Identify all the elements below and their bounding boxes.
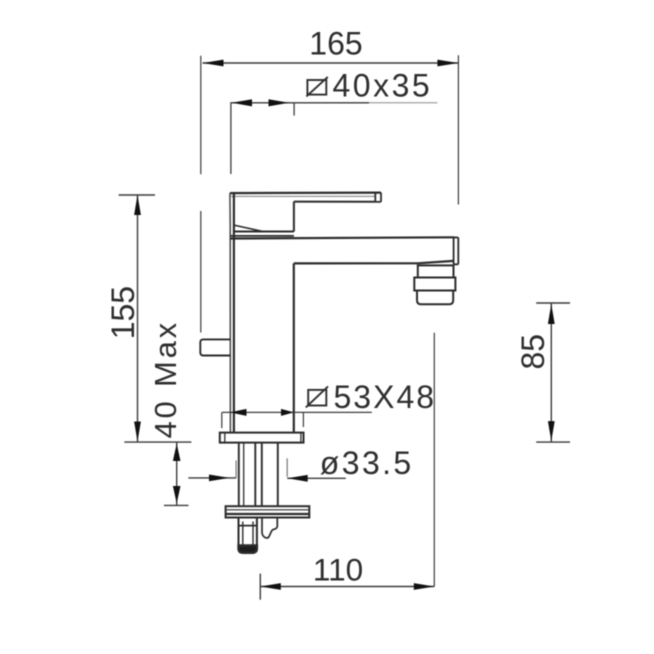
dim 85 bottom tick [536,441,570,443]
dim 40x35 leader faint tail [369,102,438,104]
arrow 40x35 right [269,99,290,106]
shank supply rod 1 [254,443,256,507]
shank supply rod 2 [261,443,263,507]
aerator band 1 [418,265,454,277]
dim 85 top tick [536,302,570,304]
dim 53x48 right bracket stub [302,412,304,427]
lever tip end cap [375,193,381,202]
dim 40x35 right stub [293,103,295,116]
arrow 165 right [437,60,458,67]
mounting flange inner lines [226,509,310,511]
body left outer edge [229,193,232,433]
label diameter symbol 53X48 [306,386,328,407]
dim 165 left extension line [200,56,202,333]
dim 165 right extension line [457,55,459,204]
spout bottom with chamfer [294,261,454,264]
svg-text:40 Max: 40 Max [148,320,183,438]
arrow 40x35 left [232,99,253,106]
arrow 33.5 left pointing right [209,475,230,482]
handle base bottom [234,231,294,233]
aerator band 2 [414,278,455,291]
dim 53x48 left bracket stub [221,412,223,428]
lever underside [294,201,375,203]
svg-text:53X48: 53X48 [334,379,437,415]
body left inner line [233,193,235,433]
shank outer wall right [277,443,279,507]
svg-text:85: 85 [515,334,551,370]
threaded stud top line [239,525,257,527]
hose break curl [262,518,277,538]
arrow 40 down [173,486,181,504]
dim 110 left tick [259,574,261,600]
arrow 155 down [134,422,141,442]
threaded stud inner lines [243,522,253,547]
arrow 155 up [134,195,141,215]
threaded stud bottom cap [239,546,257,553]
shared tick 155 bottom / 40 top [124,441,191,443]
arrow 33.5 right pointing left [287,475,308,482]
arrow 85 up [548,304,555,324]
dim 155 top tick [119,194,155,196]
threaded stud walls [239,518,257,549]
base plate inner ticks [225,433,301,443]
cartridge collar line [230,235,294,237]
dim 33.5 right line [287,477,346,479]
dim 40 line [176,442,178,505]
lever handle highlight line [231,195,375,197]
arrow 165 left [203,60,224,67]
dim 85 line [550,303,552,442]
dim 33.5 right stub [286,458,288,477]
dim 53x48 leader line [222,411,372,413]
dim 155 line [137,195,139,442]
dim 33.5 left stub [235,460,237,478]
body right edge [293,263,295,432]
handle base right edge [293,202,295,232]
dim 40x35 leader with corner [231,103,369,174]
dim 33.5 left line [188,477,236,479]
escutcheon base plate [220,433,304,443]
shank outer wall left [238,443,240,507]
arrow 40 up [173,444,181,462]
label diameter symbol 40x35 [306,77,327,97]
dim 110 right extension line [433,333,435,587]
svg-text:155: 155 [105,286,141,339]
dim 110 line [260,586,434,588]
arrow 85 down [548,421,555,441]
handle wedge diagonal [233,225,262,231]
arrow 53x48 right [281,409,294,416]
svg-text:110: 110 [313,551,363,587]
arrow 110 left [260,583,281,590]
body and spout top line [230,237,453,238]
arrow 53x48 left [230,409,247,416]
aerator band 3 [417,291,453,305]
lever handle top [230,192,381,195]
svg-text:40x35: 40x35 [333,68,433,104]
arrow 110 right [414,583,435,590]
dim 40 bottom tick [164,504,189,506]
40 Max deck tab [200,339,230,355]
shank inner wall left [243,443,245,507]
mounting flange outline [226,506,310,517]
dim 165 line [203,62,459,64]
svg-text:165: 165 [309,26,362,62]
spout end cap [454,237,459,264]
svg-text:ø33.5: ø33.5 [320,445,414,481]
